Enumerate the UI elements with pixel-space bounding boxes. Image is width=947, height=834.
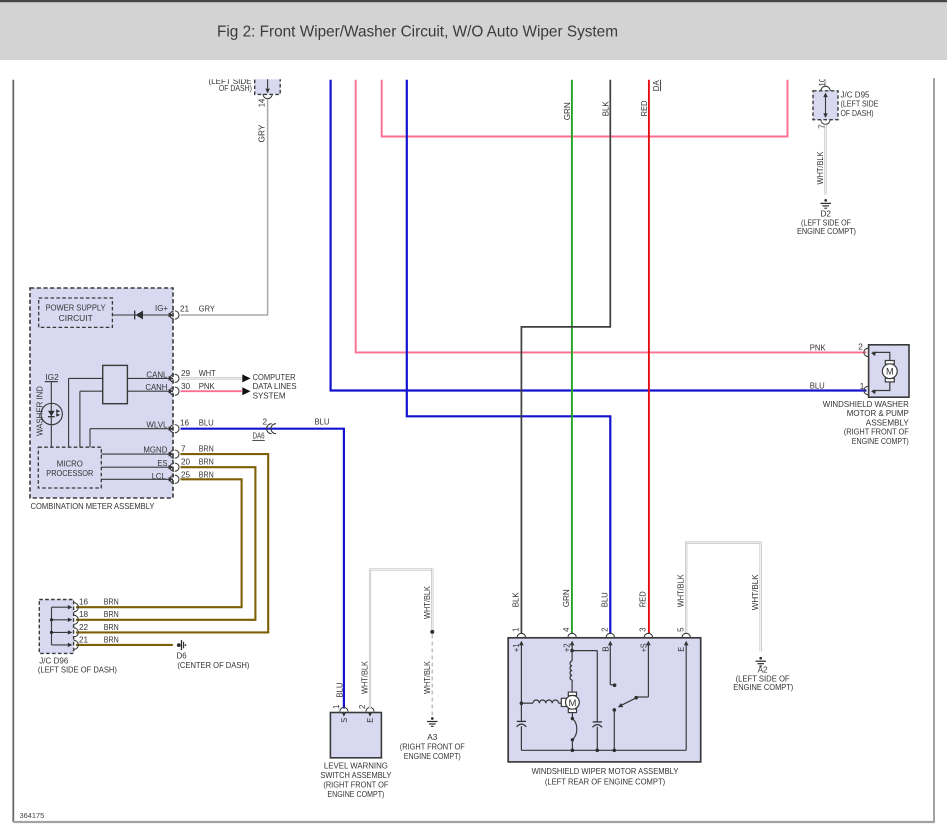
svg-text:A2: A2 [758,666,768,675]
svg-text:D2: D2 [820,210,831,219]
svg-text:22: 22 [79,623,89,632]
svg-text:BRN: BRN [104,623,119,632]
svg-text:WINDSHIELD WASHER: WINDSHIELD WASHER [823,400,909,409]
svg-text:3: 3 [639,627,648,632]
svg-text:E: E [677,646,686,651]
svg-text:16: 16 [180,419,190,428]
svg-text:ENGINE COMPT): ENGINE COMPT) [852,437,909,446]
svg-text:16: 16 [79,598,89,607]
svg-text:4: 4 [562,627,571,632]
svg-text:+2: +2 [563,643,572,652]
svg-text:BRN: BRN [104,598,119,607]
svg-text:DA: DA [652,80,661,92]
svg-text:BLU: BLU [315,418,330,427]
svg-text:BLU: BLU [600,592,609,607]
svg-text:LEVEL WARNING: LEVEL WARNING [324,762,388,771]
svg-text:GRY: GRY [258,124,267,143]
svg-text:ENGINE COMPT): ENGINE COMPT) [404,752,461,761]
svg-text:ES: ES [157,459,167,468]
svg-text:WHT: WHT [199,369,216,378]
svg-text:Fig 2: Front Wiper/Washer Circ: Fig 2: Front Wiper/Washer Circuit, W/O A… [217,24,618,41]
svg-text:CIRCUIT: CIRCUIT [59,314,93,323]
svg-text:1: 1 [511,627,520,632]
svg-text:2: 2 [858,342,863,351]
svg-text:CANL: CANL [146,370,167,379]
svg-text:BRN: BRN [104,610,119,619]
svg-text:D6: D6 [177,652,187,661]
svg-text:364175: 364175 [20,813,45,820]
svg-text:POWER SUPPLY: POWER SUPPLY [46,303,106,312]
svg-text:21: 21 [79,635,89,644]
svg-text:PNK: PNK [810,343,827,352]
svg-text:(RIGHT FRONT OF: (RIGHT FRONT OF [323,780,388,789]
svg-text:2: 2 [263,417,268,426]
svg-text:SWITCH ASSEMBLY: SWITCH ASSEMBLY [320,771,391,780]
svg-text:GRN: GRN [563,102,572,120]
svg-text:BLU: BLU [199,419,214,428]
svg-text:2: 2 [600,627,609,632]
svg-text:(LEFT REAR OF ENGINE COMPT): (LEFT REAR OF ENGINE COMPT) [545,777,666,786]
svg-text:OF DASH): OF DASH) [841,109,874,118]
svg-text:ASSEMBLY: ASSEMBLY [866,418,910,427]
svg-text:5: 5 [676,627,685,632]
svg-text:(RIGHT FRONT OF: (RIGHT FRONT OF [844,428,909,437]
svg-text:RED: RED [639,591,648,607]
svg-text:ENGINE COMPT): ENGINE COMPT) [327,790,384,799]
svg-text:IG2: IG2 [45,373,59,382]
svg-text:MOTOR & PUMP: MOTOR & PUMP [847,409,910,418]
svg-text:PNK: PNK [199,382,216,391]
svg-text:BLU: BLU [335,682,344,697]
svg-text:WASHER IND: WASHER IND [36,386,45,436]
svg-text:BRN: BRN [199,470,214,479]
svg-text:ENGINE COMPT): ENGINE COMPT) [797,227,856,236]
svg-text:IG+: IG+ [155,304,168,313]
svg-text:WHT/BLK: WHT/BLK [423,661,432,694]
svg-text:SYSTEM: SYSTEM [253,391,286,400]
svg-text:WHT/BLK: WHT/BLK [816,151,825,184]
svg-text:GRN: GRN [562,589,571,607]
svg-text:18: 18 [79,610,89,619]
svg-text:BRN: BRN [104,635,119,644]
svg-text:M: M [886,367,894,377]
svg-text:RED: RED [640,100,649,116]
svg-text:2: 2 [358,704,367,709]
svg-text:1: 1 [332,704,341,709]
svg-text:WLVL: WLVL [146,420,167,429]
svg-text:(CENTER OF DASH): (CENTER OF DASH) [177,661,249,670]
svg-text:BLU: BLU [810,381,825,390]
svg-text:20: 20 [181,458,191,467]
svg-text:7: 7 [181,445,186,454]
svg-text:M: M [568,698,576,709]
svg-text:GRY: GRY [199,304,215,313]
svg-text:BLK: BLK [511,592,520,608]
svg-text:14: 14 [257,98,266,107]
svg-text:WHT/BLK: WHT/BLK [676,574,685,607]
svg-text:21: 21 [180,304,190,313]
svg-text:WINDSHIELD WIPER MOTOR ASSEMBL: WINDSHIELD WIPER MOTOR ASSEMBLY [532,767,679,776]
svg-text:LCL: LCL [152,472,166,481]
svg-text:(LEFT SIDE: (LEFT SIDE [841,100,879,109]
svg-text:ENGINE COMPT): ENGINE COMPT) [733,683,793,692]
svg-text:E: E [366,717,375,722]
svg-text:1: 1 [860,382,865,391]
svg-text:DA6: DA6 [253,432,265,441]
svg-text:DATA LINES: DATA LINES [253,382,298,391]
svg-text:+1: +1 [512,643,521,652]
svg-text:BRN: BRN [199,445,214,454]
svg-text:(LEFT SIDE OF: (LEFT SIDE OF [736,674,790,683]
svg-text:29: 29 [181,369,191,378]
svg-text:OF DASH): OF DASH) [219,84,252,93]
svg-text:PROCESSOR: PROCESSOR [46,469,93,478]
svg-text:WHT/BLK: WHT/BLK [423,586,432,619]
svg-text:CANH: CANH [145,383,167,392]
svg-text:J/C D96: J/C D96 [39,656,68,665]
svg-text:(RIGHT FRONT OF: (RIGHT FRONT OF [400,742,465,751]
svg-text:B: B [601,646,610,652]
svg-text:MICRO: MICRO [57,460,83,469]
svg-text:25: 25 [181,470,191,479]
svg-text:J/C D95: J/C D95 [841,90,870,99]
svg-text:S: S [340,717,349,722]
svg-text:COMPUTER: COMPUTER [253,373,296,382]
svg-text:WHT/BLK: WHT/BLK [360,661,369,694]
svg-text:A3: A3 [427,733,437,742]
svg-text:(LEFT SIDE OF DASH): (LEFT SIDE OF DASH) [38,665,117,674]
svg-text:WHT/BLK: WHT/BLK [751,574,760,611]
svg-text:BRN: BRN [199,458,214,467]
svg-text:30: 30 [181,382,191,391]
svg-text:BLK: BLK [602,101,611,117]
svg-text:(LEFT SIDE OF: (LEFT SIDE OF [801,218,851,227]
svg-text:COMBINATION METER ASSEMBLY: COMBINATION METER ASSEMBLY [31,502,155,511]
svg-text:MGND: MGND [143,446,167,455]
